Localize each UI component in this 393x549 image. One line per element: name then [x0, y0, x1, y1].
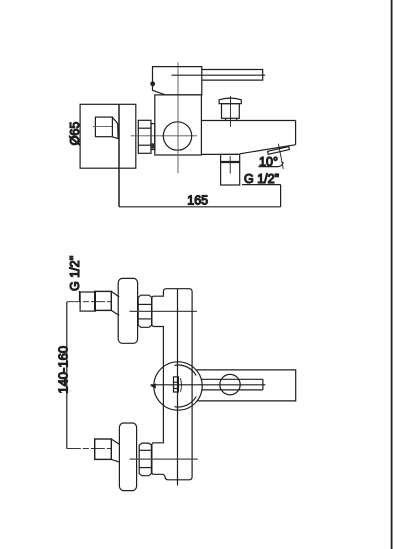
lever axis arrow — [150, 383, 155, 388]
svg-text:Ø65: Ø65 — [68, 122, 82, 146]
spout tip edge — [295, 121, 297, 145]
10 deg underline and angle arc — [259, 162, 284, 167]
lever axis line — [150, 384, 265, 386]
bottom nipple body — [95, 439, 112, 459]
diverter centerline — [230, 96, 232, 127]
wall nipple (side view) — [95, 117, 112, 137]
lever shaft — [201, 378, 263, 380]
top union nut (front view) — [138, 295, 151, 327]
bottom eccentric taper lines — [111, 439, 119, 444]
lever grip outline — [196, 370, 296, 401]
shaft joint circle — [220, 374, 240, 394]
top flange (front view) — [118, 278, 137, 343]
diverter knob cap — [219, 98, 241, 104]
bottom inlet axis — [130, 458, 198, 460]
union hex nut (side view) — [138, 120, 151, 153]
cap screw dot — [150, 81, 155, 86]
spout top edge — [201, 120, 295, 122]
page right border line — [391, 0, 393, 549]
top eccentric taper lines — [111, 291, 119, 297]
inner arc bottom — [174, 397, 196, 408]
nut facets — [139, 449, 151, 451]
label leader — [79, 291, 81, 302]
mixer body (side view) — [155, 95, 202, 155]
nut facet lines — [138, 127, 151, 129]
bottom union nut — [139, 443, 151, 476]
aerator tilted centerline — [278, 144, 283, 169]
svg-text:140-160: 140-160 — [55, 346, 70, 394]
top nipple thread section — [80, 292, 95, 311]
nut facets — [138, 303, 151, 305]
svg-text:165: 165 — [187, 194, 208, 208]
seal shadow blob — [151, 143, 154, 148]
bottom flange (front view) — [119, 423, 136, 491]
top nipple body — [95, 291, 112, 310]
diverter knob feet — [225, 118, 227, 120]
main horizontal centerline — [131, 135, 198, 137]
svg-text:G 1/2'': G 1/2'' — [68, 256, 82, 291]
svg-text:10°: 10° — [259, 155, 278, 169]
lever mid line — [172, 74, 266, 76]
shower outlet — [221, 154, 240, 185]
bottom nipple axis line — [67, 448, 112, 450]
wall flange (escutcheon) side view — [80, 104, 136, 168]
body silhouette (front view, with bosses) — [152, 289, 192, 480]
outlet centerline — [229, 156, 231, 174]
cap / lever hub — [153, 67, 202, 95]
lever handle bar — [202, 70, 263, 81]
cartridge circle — [163, 122, 191, 150]
nipple centerline — [93, 126, 113, 128]
vertical centerline — [177, 62, 179, 173]
diverter knob body — [222, 104, 240, 119]
dimension line 140-160 — [66, 302, 68, 449]
top nipple axis line — [67, 301, 112, 303]
eccentric taper (side view) — [112, 117, 118, 138]
aerator band (tilted) — [268, 147, 290, 155]
wall plane line / left extension of 165 dim — [118, 104, 120, 207]
spout underside slant — [240, 145, 296, 154]
inlet connection stub — [151, 124, 155, 150]
outlet nut divider (thick) — [221, 161, 240, 163]
right extension of 165 dim — [280, 185, 282, 207]
screw side arc — [180, 378, 181, 392]
svg-text:G 1/2": G 1/2" — [244, 172, 279, 186]
top inlet axis — [130, 310, 197, 312]
cartridge housing circle — [154, 362, 202, 410]
dimension line 165 — [119, 206, 281, 208]
center screw detail — [174, 377, 179, 392]
spout underside horizontal — [201, 153, 239, 155]
G 1/2 underline — [242, 184, 281, 186]
inner arc top — [174, 365, 196, 376]
body center line — [177, 289, 179, 486]
